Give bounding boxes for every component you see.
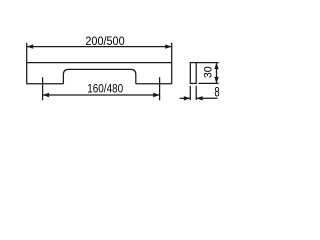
svg-text:200/500: 200/500 — [85, 36, 124, 49]
svg-text:30: 30 — [202, 66, 214, 78]
svg-text:8: 8 — [214, 84, 220, 100]
svg-text:160/480: 160/480 — [87, 83, 123, 96]
